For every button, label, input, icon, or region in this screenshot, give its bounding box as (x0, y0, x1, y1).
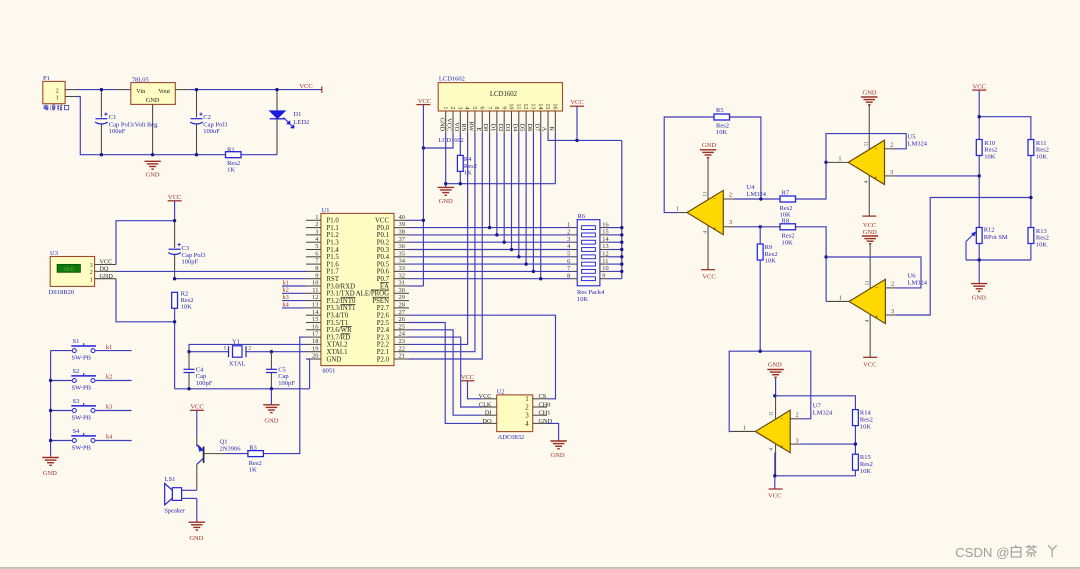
svg-text:P3.4/T0: P3.4/T0 (327, 313, 349, 320)
svg-text:2: 2 (90, 270, 93, 276)
svg-text:k3: k3 (283, 294, 289, 301)
svg-text:GND: GND (439, 198, 453, 205)
wire U7 pin3 to divider mid (801, 426, 856, 455)
junction C5 ground (270, 387, 273, 390)
wire U3 GND down to ground rail (116, 279, 175, 389)
junction D5 on P0.5 (524, 262, 527, 265)
junction R6 rail 15 (620, 233, 623, 236)
wire DQ to U1 P1.7 (116, 270, 306, 272)
wire XTAL2 to crystal (189, 344, 306, 351)
mcu U1 8051 (306, 207, 409, 375)
svg-text:S1: S1 (73, 338, 80, 345)
svg-text:S2: S2 (73, 368, 80, 375)
svg-text:k4: k4 (106, 434, 113, 441)
svg-text:+: + (780, 444, 784, 451)
svg-text:ADC0832: ADC0832 (498, 434, 525, 441)
svg-text:-: - (781, 415, 783, 422)
wire P2.6 to CS (409, 315, 556, 399)
wire U7 feedback loop (729, 351, 811, 431)
junction C4 ground (187, 387, 190, 390)
svg-text:P0.2: P0.2 (377, 240, 390, 247)
svg-text:P1.7: P1.7 (327, 269, 340, 276)
junction R6 rail 13 (620, 248, 623, 251)
junction C1 top (100, 88, 103, 91)
svg-text:24: 24 (399, 331, 406, 338)
junction U5 input node (978, 174, 981, 177)
ground GND below divider (971, 260, 987, 301)
svg-text:VCC: VCC (863, 361, 876, 368)
svg-text:8: 8 (493, 106, 500, 109)
svg-text:40: 40 (399, 214, 406, 221)
svg-text:GND: GND (264, 418, 278, 425)
svg-text:VCC: VCC (768, 493, 781, 500)
junction U4 pin2 node (759, 197, 762, 200)
net label k2 at U1 (283, 287, 289, 294)
svg-text:P3.6/WR: P3.6/WR (327, 327, 353, 334)
junction D7 on P0.7 (539, 277, 542, 280)
svg-text:8: 8 (567, 272, 570, 279)
junction S4 rail (49, 439, 52, 442)
svg-text:GND: GND (327, 356, 342, 363)
power port VCC below U6 (863, 357, 877, 368)
wire P0.0 to R6 pin 1 (409, 227, 571, 229)
net label LCD1602 wire (439, 137, 464, 144)
wire LCD D6 down to P0.6 (532, 133, 534, 272)
power port VCC above C3 (168, 194, 182, 221)
wire LCD D7 down to P0.7 (540, 133, 542, 279)
svg-text:1K: 1K (227, 166, 235, 173)
svg-text:LM324: LM324 (908, 140, 928, 147)
svg-text:k3: k3 (106, 404, 112, 411)
svg-text:VCC: VCC (375, 218, 389, 225)
svg-text:P1.5: P1.5 (327, 254, 340, 261)
svg-text:3: 3 (567, 236, 570, 243)
svg-text:R12: R12 (984, 226, 995, 233)
lcd module LCD1602 (438, 76, 562, 133)
svg-text:13: 13 (312, 302, 319, 309)
svg-text:10K: 10K (984, 153, 996, 160)
svg-text:D2: D2 (497, 123, 504, 131)
svg-text:23: 23 (399, 338, 406, 345)
svg-text:8: 8 (315, 265, 318, 272)
svg-text:LS1: LS1 (165, 476, 176, 483)
junction R6 rail 10 (620, 270, 623, 273)
wire S3 to net k3 (95, 410, 131, 412)
svg-text:GND: GND (146, 172, 160, 179)
resistor R9 (757, 227, 777, 265)
svg-text:P2.6: P2.6 (377, 313, 390, 320)
svg-text:P1: P1 (43, 75, 50, 82)
svg-text:29: 29 (399, 294, 406, 301)
capacitor C4 (184, 352, 213, 389)
wire k2 to P3.1 (282, 292, 306, 294)
svg-text:1: 1 (567, 221, 570, 228)
svg-text:1: 1 (442, 106, 449, 109)
svg-text:10K: 10K (765, 258, 777, 265)
wire LCD D4 down to P0.4 (518, 133, 520, 257)
wire LCD pin1 GND down (445, 133, 447, 184)
svg-text:GND: GND (100, 273, 114, 280)
svg-text:13: 13 (530, 103, 537, 109)
svg-text:11: 11 (704, 191, 709, 196)
ground GND below speaker (189, 522, 205, 542)
junction S2 rail (49, 379, 52, 382)
svg-text:16: 16 (312, 323, 319, 330)
wire U4 pin3 to R8 (734, 226, 780, 228)
svg-text:VCC: VCC (168, 194, 181, 201)
wire P0.7 to R6 pin 8 (409, 278, 571, 280)
svg-text:VCC: VCC (446, 118, 453, 131)
svg-text:VCC: VCC (702, 273, 715, 280)
svg-text:LCD1602: LCD1602 (439, 76, 465, 83)
svg-text:2: 2 (796, 412, 799, 418)
svg-text:4: 4 (525, 420, 529, 428)
junction C1 bottom (100, 153, 103, 156)
svg-text:1: 1 (839, 296, 842, 302)
svg-text:6: 6 (567, 258, 570, 265)
svg-text:P1.3: P1.3 (327, 240, 340, 247)
junction D2 on P0.2 (502, 241, 505, 244)
svg-text:DQ: DQ (100, 266, 109, 273)
svg-text:P0.0: P0.0 (377, 225, 390, 232)
svg-text:15: 15 (544, 103, 551, 109)
wire LCD RW to P2.1 (409, 133, 475, 352)
svg-text:PSEN: PSEN (372, 298, 389, 305)
wire VCC node to U3 pin3 (116, 221, 175, 265)
svg-text:36: 36 (399, 243, 406, 250)
power port VCC below U7 (768, 489, 782, 500)
svg-text:GND: GND (972, 294, 986, 301)
wire k4 to P3.3 (282, 307, 306, 309)
wire LCD K down to ground rail (554, 133, 556, 184)
svg-text:GND: GND (702, 142, 716, 149)
svg-text:1K: 1K (249, 466, 257, 473)
junction R6 rail 14 (620, 241, 623, 244)
net label k1 (106, 344, 112, 351)
junction R9 on U7 loop (759, 350, 762, 353)
svg-text:SW-PB: SW-PB (72, 414, 92, 421)
svg-text:RW: RW (468, 121, 475, 132)
svg-text:P0.3: P0.3 (377, 247, 390, 254)
svg-text:2: 2 (891, 282, 894, 288)
svg-text:Vin: Vin (136, 88, 146, 95)
svg-text:12: 12 (312, 294, 319, 301)
svg-text:U3: U3 (50, 250, 58, 257)
ground GND below C5 (263, 389, 279, 425)
junction VCC LCD node (422, 146, 425, 149)
regulator U 78L05 (116, 76, 189, 154)
svg-text:P2.5: P2.5 (377, 320, 390, 327)
wire VCC down to U1 VCC and EA (409, 148, 423, 286)
svg-text:CS: CS (539, 393, 547, 400)
switch S3 SW-PB (51, 398, 96, 422)
svg-text:21: 21 (399, 353, 406, 360)
junction R11 R13 node (1029, 196, 1032, 199)
svg-text:11: 11 (515, 104, 522, 110)
wire S1 to net k1 (95, 350, 131, 352)
svg-text:P3.7/RD: P3.7/RD (327, 334, 351, 341)
wire R11 to R13 (1030, 156, 1032, 228)
svg-text:LM324: LM324 (747, 191, 767, 198)
capacitor C3 (168, 221, 205, 279)
svg-text:GND: GND (146, 97, 160, 104)
svg-text:R14: R14 (860, 409, 872, 416)
wire U2 GND to ground (547, 423, 559, 440)
svg-text:2: 2 (449, 106, 456, 109)
svg-text:VCC: VCC (418, 98, 431, 105)
svg-text:P1.6: P1.6 (327, 261, 340, 268)
svg-text:31: 31 (399, 280, 406, 287)
wire crystal ground rail (175, 388, 310, 390)
svg-text:P2.2: P2.2 (377, 342, 390, 349)
svg-text:P2.3: P2.3 (377, 334, 390, 341)
svg-text:12: 12 (522, 103, 529, 109)
svg-text:2: 2 (729, 193, 732, 199)
svg-text:P0.1: P0.1 (377, 232, 389, 239)
svg-text:1: 1 (676, 206, 679, 212)
svg-text:28: 28 (399, 302, 406, 309)
svg-text:38: 38 (399, 229, 406, 236)
svg-text:VCC: VCC (461, 374, 474, 381)
svg-text:k2: k2 (283, 287, 289, 294)
svg-text:S3: S3 (73, 398, 80, 405)
speaker LS1 (164, 476, 197, 514)
wire P0.4 to R6 pin 5 (409, 256, 571, 258)
svg-text:RPot SM: RPot SM (984, 234, 1008, 241)
svg-text:CH0: CH0 (539, 401, 551, 408)
junction R6 rail 11 (620, 262, 623, 265)
svg-text:E: E (475, 127, 482, 131)
junction crystal right (270, 350, 273, 353)
ground GND below 78L05 (144, 161, 160, 178)
svg-text:LED2: LED2 (293, 119, 309, 126)
svg-text:k1: k1 (283, 279, 289, 286)
junction U5 output (824, 161, 827, 164)
svg-text:RST: RST (327, 276, 340, 283)
svg-text:3: 3 (456, 106, 463, 109)
resistor R7 (780, 189, 796, 218)
net label k2 (106, 374, 112, 381)
svg-text:DO: DO (482, 418, 492, 425)
junction D6 on P0.6 (532, 270, 535, 273)
junction R6 rail 16 (620, 226, 623, 229)
svg-text:P3.1/TXD: P3.1/TXD (327, 291, 355, 298)
junction R4 bottom (459, 182, 462, 185)
svg-text:GND: GND (43, 470, 57, 477)
junction U4 pin3 node (759, 225, 762, 228)
svg-text:100pF: 100pF (278, 380, 295, 387)
svg-text:37: 37 (399, 236, 406, 243)
wire U6 pin3 reference (896, 198, 1031, 316)
wire R6 common rail to VCC (607, 140, 622, 278)
wire P2.3 to CLK (409, 337, 482, 407)
svg-text:P3.5/T1: P3.5/T1 (327, 320, 349, 327)
resistor pack R6 Res Pack4 (567, 213, 609, 303)
svg-text:-: - (875, 145, 877, 152)
svg-text:39: 39 (399, 221, 406, 228)
svg-text:P2.4: P2.4 (377, 327, 390, 334)
svg-text:GND: GND (863, 90, 877, 97)
svg-text:DI: DI (485, 410, 492, 417)
svg-text:34: 34 (399, 258, 406, 265)
svg-text:20: 20 (312, 353, 319, 360)
svg-text:K: K (548, 127, 555, 132)
wire divider bottom rail (966, 244, 1031, 261)
junction U7 ground node (773, 394, 776, 397)
crystal Y1 XTAL (223, 339, 251, 368)
svg-text:+: + (875, 314, 879, 321)
wire GND node to R14 (775, 396, 856, 410)
svg-text:10K: 10K (716, 129, 728, 136)
ground GND below switches (42, 458, 58, 477)
wire U6 feedback to pin2 (826, 257, 921, 288)
svg-text:GND: GND (768, 362, 782, 369)
svg-text:CH1: CH1 (539, 410, 551, 417)
net label k4 (106, 434, 113, 441)
svg-text:6: 6 (478, 106, 485, 109)
svg-text:2: 2 (567, 229, 570, 236)
wire S4 to net k4 (95, 440, 131, 442)
svg-text:3: 3 (90, 263, 93, 269)
junction VCC divider (978, 115, 981, 118)
resistor R4 on VO (457, 133, 477, 184)
wire crystal line XTAL1 (189, 351, 306, 353)
svg-text:32: 32 (399, 272, 406, 279)
junction VCC backlight (575, 139, 578, 142)
resistor R10 (976, 140, 997, 161)
power port VCC for U2 (461, 374, 483, 399)
svg-text:XTAL2: XTAL2 (327, 342, 349, 349)
svg-text:P0.4: P0.4 (377, 254, 390, 261)
wire P0.3 to R6 pin 4 (409, 249, 571, 251)
svg-text:S4: S4 (73, 428, 81, 435)
capacitor C1 (95, 90, 158, 155)
junction LCD GND rail (444, 182, 447, 185)
svg-text:Vout: Vout (158, 88, 170, 95)
svg-text:78L05: 78L05 (132, 76, 149, 83)
svg-text:VO: VO (453, 122, 460, 132)
svg-text:3: 3 (729, 220, 732, 226)
svg-text:30.0: 30.0 (63, 267, 74, 273)
svg-text:P1.4: P1.4 (327, 247, 340, 254)
op-amp U5 LM324 (826, 105, 928, 216)
switch S1 SW-PB (51, 338, 96, 362)
svg-text:1: 1 (839, 156, 842, 162)
junction R6 rail 12 (620, 255, 623, 258)
svg-text:D0: D0 (482, 123, 489, 131)
svg-text:19: 19 (312, 345, 319, 352)
svg-text:CSDN @: CSDN @ (955, 545, 1009, 560)
svg-text:10K: 10K (181, 304, 193, 311)
net label k3 at U1 (283, 294, 289, 301)
net label k4 at U1 (283, 301, 290, 308)
junction divider ground (978, 258, 981, 261)
svg-text:P0.6: P0.6 (377, 269, 390, 276)
svg-text:RS: RS (460, 123, 467, 131)
wire k1 to P3.0 (282, 285, 306, 287)
wire U1 GND pin down (306, 359, 310, 389)
svg-text:LM324: LM324 (908, 279, 928, 286)
resistor R14 (853, 409, 873, 430)
power port VCC top right (972, 83, 986, 116)
svg-text:C1: C1 (109, 114, 117, 121)
svg-text:30: 30 (399, 287, 406, 294)
connector P1 (43, 75, 76, 110)
wire R3 to Q1 base (225, 453, 248, 455)
junction D1 anode (275, 88, 278, 91)
svg-text:SW-PB: SW-PB (72, 384, 92, 391)
svg-text:XTAL1: XTAL1 (327, 349, 348, 356)
wire P0.1 to R6 pin 2 (409, 234, 571, 236)
wire switch ground rail (50, 351, 52, 457)
svg-text:P2.0: P2.0 (377, 356, 390, 363)
svg-text:U5: U5 (908, 133, 916, 140)
svg-text:R5: R5 (716, 107, 724, 114)
svg-text:27: 27 (399, 309, 406, 316)
wire VCC to LCD pin2 (423, 133, 453, 148)
wire VCC to R10 R11 (979, 117, 1031, 140)
svg-text:26: 26 (399, 316, 406, 323)
wire P3.7 to R3 (263, 337, 306, 454)
junction VCC U7 node (773, 474, 776, 477)
wire U5 output to R7 (796, 162, 827, 199)
svg-text:ALE/PROG: ALE/PROG (356, 291, 389, 298)
wire RST net (175, 278, 306, 280)
svg-text:17: 17 (312, 331, 319, 338)
op-amp U6 LM324 (826, 244, 928, 357)
junction crystal left (187, 350, 190, 353)
svg-text:D6: D6 (526, 123, 533, 131)
svg-text:U6: U6 (908, 272, 917, 279)
svg-text:2: 2 (315, 221, 318, 228)
svg-text:EA: EA (380, 283, 389, 290)
watermark text (955, 545, 1057, 560)
wire R8 to U6 output node (796, 227, 827, 302)
junction U6 output node (824, 255, 827, 258)
junction U1 VCC (422, 219, 425, 222)
svg-text:100pF: 100pF (182, 259, 199, 266)
svg-text:SW-PB: SW-PB (72, 444, 92, 451)
bottom edge line (0, 567, 1080, 569)
svg-text:10K: 10K (782, 239, 794, 246)
junction D3 on P0.3 (510, 248, 513, 251)
potentiometer R12 RPot SM (966, 226, 1008, 260)
svg-text:R3: R3 (249, 444, 257, 451)
resistor R2 (172, 290, 194, 322)
switch S4 SW-PB (51, 428, 96, 452)
svg-text:1: 1 (315, 214, 318, 221)
wire P2.4 to DI (409, 330, 482, 415)
svg-text:R1: R1 (227, 146, 235, 153)
svg-text:100uF: 100uF (203, 128, 220, 135)
svg-text:U4: U4 (747, 184, 756, 191)
svg-text:D4: D4 (511, 123, 518, 132)
svg-text:5: 5 (315, 243, 318, 250)
ground GND above U6 (862, 229, 878, 244)
svg-text:P1.0: P1.0 (327, 218, 340, 225)
svg-text:100pF: 100pF (196, 380, 213, 387)
svg-text:100uF: 100uF (109, 128, 126, 135)
svg-text:U1: U1 (322, 207, 330, 214)
wire LCD D5 down to P0.5 (525, 133, 527, 264)
wire speaker to ground (196, 498, 198, 521)
svg-text:VCC: VCC (863, 222, 876, 229)
svg-text:A: A (541, 127, 548, 132)
svg-text:4: 4 (464, 106, 471, 109)
svg-text:P2.7: P2.7 (377, 305, 390, 312)
svg-text:3: 3 (315, 229, 318, 236)
svg-text:k4: k4 (283, 301, 290, 308)
